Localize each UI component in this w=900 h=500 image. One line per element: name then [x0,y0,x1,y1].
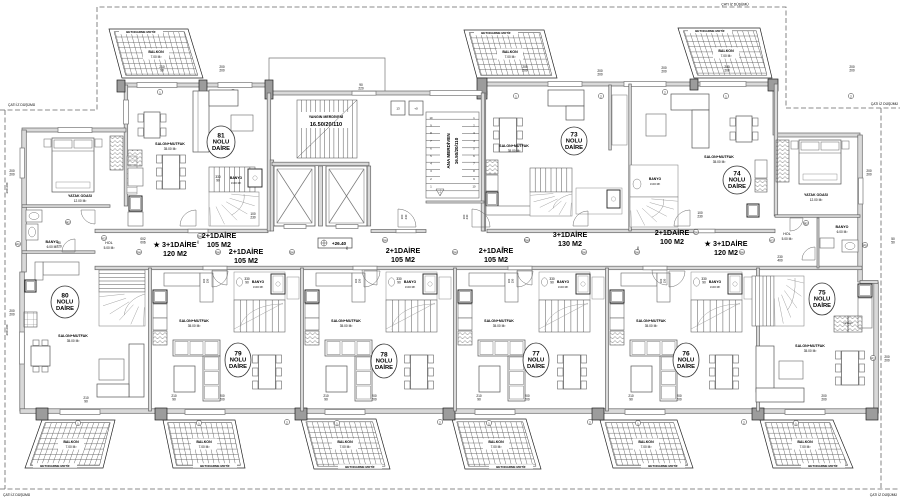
svg-text:DK: DK [383,238,387,242]
apt 81 shower box [248,169,262,187]
svg-text:BETONARME MOTİF: BETONARME MOTİF [648,463,678,468]
svg-text:BETONARME MOTİF: BETONARME MOTİF [808,463,838,468]
apt 81 window west wall [124,100,129,124]
left wing door arcs [81,210,95,224]
svg-text:ÇATI İZ DÜŞÜMÜ: ÇATI İZ DÜŞÜMÜ [721,2,749,7]
stair block roof line [269,58,385,93]
balcony bottom-4 (apt 77) [437,419,549,469]
apt 79 counter along corridor [164,273,200,286]
svg-text:3.00 M²: 3.00 M² [231,181,241,185]
svg-text:DAİRE: DAİRE [565,144,583,151]
svg-text:DAİRE: DAİRE [728,183,746,190]
svg-text:100 M2: 100 M2 [660,237,684,246]
apt 76 hatched fridge [610,331,624,345]
svg-text:5.00 M²: 5.00 M² [782,237,793,241]
svg-text:35.00 M²: 35.00 M² [713,160,726,164]
apt 73 internal stair [530,168,572,192]
apt 78 wc [389,278,395,286]
apt 75 coffee table [779,361,803,379]
svg-text:5.00 M²: 5.00 M² [104,246,115,250]
apt 74 dining table [730,116,758,142]
svg-text:BETONARME MOTİF: BETONARME MOTİF [695,28,725,33]
svg-text:90: 90 [216,179,220,183]
apt 75 washing machines hatched [834,316,848,332]
apt 73 sofa [548,90,584,120]
svg-text:16.50/20/110: 16.50/20/110 [454,137,459,164]
apt 80 circle [51,286,79,318]
west wall apt 81 [124,85,128,206]
windows south wall [60,410,100,415]
apt 81 internal stair [209,167,255,192]
left wing north wall [22,128,126,132]
right wing bedside tables [791,141,798,149]
elevator shaft walls [270,160,274,231]
svg-text:7.00 M²: 7.00 M² [340,445,351,449]
lobby south wall segment [371,230,426,233]
svg-text:DK: DK [290,250,294,254]
apt 75 circle [809,283,835,315]
right wing bathroom fixtures [842,240,858,252]
svg-text:2+1DAİRE: 2+1DAİRE [386,246,421,255]
apt 80 coffee table [99,359,124,380]
apt 79 bathroom [234,272,285,300]
svg-text:230: 230 [511,278,515,283]
apt 73 dining table [494,118,523,152]
svg-text:DAİRE: DAİRE [375,364,393,371]
svg-text:200: 200 [724,69,730,73]
svg-text:230: 230 [250,216,256,220]
svg-text:200: 200 [219,69,225,73]
svg-text:90: 90 [245,281,249,285]
svg-text:ÇATI İZ DÜŞÜMÜ: ÇATI İZ DÜŞÜMÜ [8,102,36,107]
apt 78 internal stair [386,300,437,332]
balcony top-middle (apt 73) [449,30,566,78]
apt 76 door arc from corridor [669,271,685,287]
apt 81 stair fan [209,192,259,226]
svg-text:73: 73 [570,132,578,139]
apt 79 shelf [287,277,299,299]
svg-text:81: 81 [217,133,225,140]
apt 75 dining table [836,351,865,385]
svg-text:BALKON: BALKON [196,440,212,444]
svg-text:12.00 M²: 12.00 M² [74,199,87,203]
apt 79 door arc from corridor [212,271,228,287]
svg-text:SALON+MUTFAK: SALON+MUTFAK [636,319,666,323]
svg-text:200 200: 200 200 [5,324,9,335]
apt 81 sofa [193,90,253,152]
svg-text:ANA MERDİVEN: ANA MERDİVEN [445,133,451,169]
svg-text:90: 90 [397,281,401,285]
apt 78 door arc from corridor [364,271,380,287]
svg-text:DK: DK [216,250,220,254]
apt 77 sofa [478,340,525,401]
svg-text:120 M2: 120 M2 [163,249,187,258]
balcony bottom-5 (apt 76) [585,420,697,468]
svg-text:200: 200 [661,70,667,74]
apt 73 door arc corridor [573,211,588,226]
svg-text:DAİRE: DAİRE [229,363,247,370]
svg-text:230: 230 [358,278,362,283]
svg-text:200 200: 200 200 [5,182,9,193]
svg-text:200: 200 [821,398,827,402]
svg-text:7.00 M²: 7.00 M² [151,55,162,59]
svg-text:230: 230 [404,214,408,219]
main stair (ana merdiven) [426,112,479,198]
svg-text:+0: +0 [414,107,418,111]
svg-text:7.00 M²: 7.00 M² [505,55,516,59]
svg-text:ÇATI İZ DÜŞÜMÜ: ÇATI İZ DÜŞÜMÜ [870,492,898,497]
svg-text:BALKON: BALKON [148,50,164,54]
corridor door arcs south wall [212,270,227,285]
svg-text:DK: DK [582,250,586,254]
apt 78 kitchen column [305,290,319,303]
svg-text:BANYO: BANYO [404,280,417,284]
apt 76 shelf [744,277,756,299]
svg-text:105 M2: 105 M2 [234,256,258,265]
apt 77 counter along corridor [469,273,505,286]
apt 78 shelf [439,277,451,299]
svg-text:DK: DK [740,250,744,254]
apt 74 sofa L [671,94,709,148]
svg-text:NOLU: NOLU [814,297,830,303]
balcony top-left (apt 81) [94,29,206,78]
svg-text:200: 200 [9,313,15,317]
left wing bedside tables [44,139,51,147]
svg-text:90: 90 [172,398,176,402]
apt 77 wc [542,278,548,286]
stair block door opening [352,91,376,95]
svg-text:P5: P5 [863,243,867,247]
svg-text:2+1DAİRE: 2+1DAİRE [229,247,264,256]
svg-text:80: 80 [61,293,69,300]
apt 79 wc [237,278,243,286]
apt 79 hatched fridge [153,331,167,345]
svg-text:105 M2: 105 M2 [484,255,508,264]
apt 77 bathroom [539,272,590,300]
apt 79 internal stair [234,300,285,332]
apt 81 wall ladder [127,156,137,194]
corridor south wall [95,266,862,270]
svg-text:220: 220 [358,87,364,91]
stair landing edge [426,201,484,203]
svg-text:3+1DAİRE: 3+1DAİRE [553,230,588,239]
svg-text:BALKON: BALKON [63,440,79,444]
svg-text:B2: B2 [804,221,808,225]
svg-text:2+1DAİRE: 2+1DAİRE [202,231,237,240]
svg-text:2+1DAİRE: 2+1DAİRE [655,228,690,237]
svg-text:YATAK ODASI: YATAK ODASI [68,194,92,198]
svg-text:90: 90 [550,281,554,285]
svg-text:50: 50 [891,241,895,245]
apt 79 shower box [271,274,285,294]
apt 81 hatched fridge [128,150,142,166]
partition stair|apt73 east wall [482,93,486,231]
right wing inner walls [775,215,860,218]
apt 76 kitchen column [610,290,624,303]
svg-text:★ 3+1DAİRE: ★ 3+1DAİRE [153,240,197,249]
partition bottom row 1 [301,268,304,411]
partition apt73|apt74 [629,84,632,231]
svg-text:006: 006 [140,241,146,245]
apt 79 dining table [253,355,282,389]
svg-text:K3: K3 [770,238,774,242]
svg-text:230: 230 [697,215,703,219]
svg-text:35.00 M²: 35.00 M² [493,324,506,328]
svg-text:SALON+MUTFAK: SALON+MUTFAK [58,334,88,338]
svg-text:90: 90 [160,69,164,73]
svg-text:BANYO: BANYO [557,280,570,284]
svg-text:7.00 M²: 7.00 M² [641,445,652,449]
svg-text:NOLU: NOLU [57,300,73,306]
apt 78 counter along corridor [316,273,352,286]
svg-text:16.50/20/110: 16.50/20/110 [310,122,342,128]
south wall [20,409,878,414]
svg-text:100: 100 [202,278,206,283]
svg-text:SALON+MUTFAK: SALON+MUTFAK [795,344,825,348]
svg-text:35.00 M²: 35.00 M² [188,324,201,328]
svg-text:6.00 M²: 6.00 M² [837,230,848,234]
svg-text:B2: B2 [66,220,70,224]
left wing bed [52,138,94,192]
balcony bottom-1 (apt 80) [15,420,130,468]
svg-text:BALKON: BALKON [718,49,734,53]
svg-text:BALKON: BALKON [638,440,654,444]
svg-text:BANYO: BANYO [836,225,849,229]
svg-text:3.00 M²: 3.00 M² [650,182,660,186]
apt 76 wc [694,278,700,286]
corridor north wall [95,229,268,233]
partition apt74|right wing [774,84,778,216]
apt 76 dining table [710,355,739,389]
storage boxes above main stair [391,101,405,115]
apt 78 circle [371,344,397,378]
svg-text:BETONARME MOTİF: BETONARME MOTİF [40,463,70,468]
svg-text:3.00 M²: 3.00 M² [558,285,568,289]
apt 81 circle [207,126,235,158]
svg-text:90: 90 [702,281,706,285]
svg-text:76: 76 [682,351,690,358]
columns north wall [117,80,125,92]
svg-text:NOLU: NOLU [678,358,694,364]
svg-text:BALKON: BALKON [488,440,504,444]
svg-text:P2: P2 [871,356,875,360]
svg-text:7.00 M²: 7.00 M² [800,445,811,449]
level marker +26.40 [318,238,352,248]
east wall apt 74 (wing junction) [773,84,777,135]
svg-text:200: 200 [597,73,603,77]
svg-text:K3: K3 [102,236,106,240]
columns south wall [36,408,48,420]
partition bottom row 3 [606,268,609,411]
apt 74 circle [723,166,751,194]
right wing east window [859,178,864,204]
apt 76 bathroom [691,272,742,300]
svg-text:BALKON: BALKON [797,440,813,444]
east outer wall lower [874,282,879,413]
svg-text:SALON+MUTFAK: SALON+MUTFAK [484,319,514,323]
svg-text:230: 230 [465,214,469,219]
apt 80 dining table [31,340,50,372]
svg-text:200: 200 [9,173,15,177]
svg-text:BANYO: BANYO [649,177,662,181]
balcony bottom-2 (apt 79) [148,420,252,468]
elevator shaft 1 [274,166,315,226]
svg-text:75: 75 [818,290,826,297]
svg-text:90: 90 [324,398,328,402]
apt 76 sofa [630,340,677,401]
balcony bottom-6 (apt 75) [745,420,853,468]
apt 79 kitchen column [153,290,167,303]
svg-text:130 M2: 130 M2 [558,239,582,248]
left wing window north [58,128,92,133]
svg-text:200: 200 [884,359,890,363]
svg-text:35.00 M²: 35.00 M² [67,339,80,343]
svg-text:P5: P5 [16,242,20,246]
svg-text:BANYO: BANYO [709,280,722,284]
apt 77 shower box [576,274,590,294]
svg-text:DAİRE: DAİRE [56,305,74,312]
apt 77 circle [523,343,549,377]
svg-text:NOLU: NOLU [213,140,229,146]
svg-text:90: 90 [629,398,633,402]
svg-text:35.00 M²: 35.00 M² [340,324,353,328]
svg-text:NOLU: NOLU [528,358,544,364]
svg-text:100: 100 [507,278,511,283]
balcony bottom-3 (apt 78) [286,419,398,469]
svg-text:35.00 M²: 35.00 M² [164,147,177,151]
svg-text:90: 90 [477,398,481,402]
fire escape stair (yangin merdiveni) [297,100,357,158]
east outer wall upper [858,135,863,282]
svg-text:YATAK ODASI: YATAK ODASI [804,193,828,197]
svg-text:200: 200 [849,69,855,73]
apt 81 dining table small [138,112,166,138]
west wall apt 80 [20,272,25,411]
apt 74 kitchen east [755,160,767,178]
small circles top wall [157,89,162,94]
svg-text:+26.40: +26.40 [332,241,347,246]
elevator shaft 2 [326,166,367,226]
apt 78 hatched fridge [305,331,319,345]
corridor door openings north [188,229,208,233]
apt 76 circle [673,343,699,377]
svg-text:BALKON: BALKON [337,440,353,444]
left wing wardrobe hatched [110,136,123,170]
svg-text:BALKON: BALKON [502,50,518,54]
apt 73 bathroom box [576,188,622,214]
svg-text:35.00 M²: 35.00 M² [508,149,521,153]
apt 80 west window [20,332,25,364]
partition bottom row 4 [757,268,760,411]
left wing small marks [15,241,20,246]
right wing wardrobe hatched [776,140,789,182]
svg-text:NOLU: NOLU [376,359,392,365]
svg-text:SALON+MUTFAK: SALON+MUTFAK [704,155,734,159]
apt 74 banyo [630,165,678,197]
svg-text:NOLU: NOLU [566,139,582,145]
svg-text:DAİRE: DAİRE [677,363,695,370]
apt 75 sofa [756,346,804,402]
left wing inner walls [22,205,110,208]
apt 76 internal stair [691,300,742,332]
apt 77 dining table [558,355,587,389]
svg-text:BETONARME MOTİF: BETONARME MOTİF [126,29,156,34]
svg-text:3.00 M²: 3.00 M² [710,285,720,289]
svg-text:7.00 M²: 7.00 M² [491,445,502,449]
svg-text:7.00 M²: 7.00 M² [721,54,732,58]
svg-text:DK: DK [453,250,457,254]
apt 73 circle [561,127,587,155]
apt 81 door arc [180,210,196,226]
right wing door arcs [790,218,803,231]
svg-text:35.00 M²: 35.00 M² [804,349,817,353]
apt 80 kitchen counters [43,262,79,275]
balcony top-right (apt 74) [663,28,783,78]
corridor DK circles [136,249,141,254]
svg-text:SALON+MUTFAK: SALON+MUTFAK [331,319,361,323]
svg-text:90: 90 [84,400,88,404]
svg-text:NOLU: NOLU [230,358,246,364]
svg-text:SALON+MUTFAK: SALON+MUTFAK [179,319,209,323]
svg-text:230: 230 [663,278,667,283]
apt 80 stair [99,270,145,292]
left wing bathroom fixtures [26,210,42,222]
svg-text:BETONARME MOTİF: BETONARME MOTİF [200,463,230,468]
apt 81 kitchen counters [128,168,143,186]
svg-text:DAİRE: DAİRE [212,145,230,152]
svg-text:DK: DK [635,250,639,254]
svg-text:105 M2: 105 M2 [207,240,231,249]
small circles south wall [75,420,80,425]
apt 77 door arc from corridor [517,271,533,287]
svg-text:BETONARME MOTİF: BETONARME MOTİF [345,464,375,469]
main stair east wall [481,93,485,231]
svg-text:200: 200 [522,69,528,73]
svg-text:7.00 M²: 7.00 M² [66,445,77,449]
svg-text:BANYO: BANYO [230,176,243,180]
apt 74 door arc [674,210,690,226]
corridor door openings south [203,266,227,270]
svg-text:çamaşır: çamaşır [843,321,852,325]
svg-text:BANYO: BANYO [252,280,265,284]
apt 81 dining table [157,155,186,189]
svg-text:74: 74 [733,171,741,178]
left wing window west [20,148,25,178]
apt 77 shelf [592,277,604,299]
apt 79 sofa [173,340,220,401]
svg-text:2+1DAİRE: 2+1DAİRE [479,246,514,255]
svg-text:★ 3+1DAİRE: ★ 3+1DAİRE [704,239,748,248]
svg-text:BETONARME MOTİF: BETONARME MOTİF [481,30,511,35]
apt 79 circle [225,343,251,377]
apt 78 sofa [325,340,372,401]
apt 76 counter along corridor [621,273,657,286]
apt 78 dining table [405,355,434,389]
svg-text:120 M2: 120 M2 [714,248,738,257]
svg-text:HOL: HOL [105,241,112,245]
apt 76 shower box [728,274,742,294]
apt 77 hatched fridge [458,331,472,345]
svg-text:79: 79 [234,351,242,358]
apt 73 kitchen south counter [486,206,540,215]
svg-text:35.00 M²: 35.00 M² [645,324,658,328]
apt 78 bathroom [386,272,437,300]
north wall stair block [268,91,487,95]
apt 73 bedroom cabinet [612,95,627,145]
svg-text:HOL: HOL [783,232,790,236]
right wing small marks [803,220,808,225]
apt 73 bedroom east wall [609,85,612,150]
